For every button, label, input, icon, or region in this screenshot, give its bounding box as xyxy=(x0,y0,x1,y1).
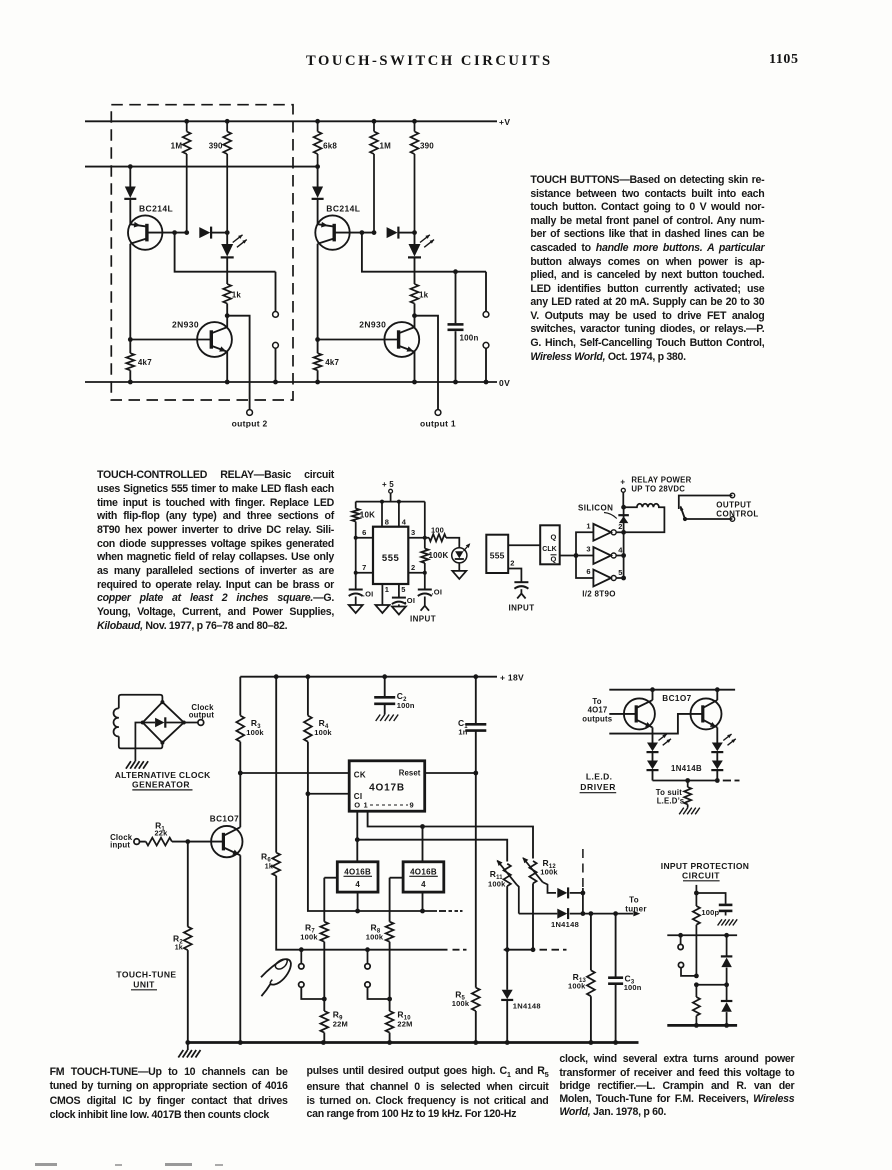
terminal clock input xyxy=(134,839,140,845)
ground (triangle) LED xyxy=(452,571,466,579)
node rail2/section1 tap xyxy=(128,164,133,169)
LED chain 2 xyxy=(712,743,723,752)
svg-text:output: output xyxy=(189,711,215,720)
node 1M/base xyxy=(184,230,189,235)
terminal plate lower xyxy=(678,962,683,967)
node emitter/0V xyxy=(225,380,230,385)
svg-text:2N930: 2N930 xyxy=(172,320,199,330)
node CI junction xyxy=(306,791,311,796)
flip-flop CLK box U3 xyxy=(540,525,560,564)
wire LED return dashes xyxy=(723,780,731,782)
switch output control xyxy=(679,496,733,510)
svg-text:ALTERNATIVE CLOCK: ALTERNATIVE CLOCK xyxy=(115,770,211,780)
wire Reset line xyxy=(425,772,476,774)
wire +V rail xyxy=(85,120,497,122)
node 4k7/0V xyxy=(128,380,133,385)
resistor R1 22k xyxy=(140,841,146,843)
arrow to tuner xyxy=(633,911,640,917)
LED indicator xyxy=(226,233,228,244)
touch contact upper xyxy=(485,272,487,312)
ground (hatch) C2 xyxy=(376,715,381,722)
finger sketch xyxy=(261,959,291,985)
svg-text:To: To xyxy=(629,895,639,904)
svg-text:1M: 1M xyxy=(380,142,392,151)
diode 1N4148 (tuner line) xyxy=(557,909,567,919)
node diode/coil xyxy=(621,505,626,510)
wire CK line xyxy=(240,772,349,774)
inductor pickup coil xyxy=(114,708,119,736)
node pin8 feed xyxy=(380,500,384,504)
capacitor 100n (sec 1) xyxy=(453,269,458,274)
inverter U3c (pins 6-5) xyxy=(593,570,611,587)
svg-text:GENERATOR: GENERATOR xyxy=(132,779,190,789)
ground (hatch) 100p xyxy=(718,919,722,925)
svg-text:100k: 100k xyxy=(300,933,318,942)
inverter U3b (pins 3-4) xyxy=(593,547,611,564)
node 1M/base xyxy=(372,230,377,235)
wire pin 8 xyxy=(381,502,383,527)
svg-text:O: O xyxy=(354,801,360,810)
svg-text:4: 4 xyxy=(402,518,407,527)
wire pin 6 xyxy=(356,537,373,539)
node C1 top xyxy=(473,674,478,679)
resistor 1M (sec 1) xyxy=(372,119,377,124)
wire touch bus rail2 xyxy=(85,166,318,168)
svg-text:4O17B: 4O17B xyxy=(369,782,405,793)
svg-text:+ 5: + 5 xyxy=(382,480,394,489)
svg-text:.OI: .OI xyxy=(363,589,374,598)
wire relay return / out2 line xyxy=(624,531,665,533)
svg-text:+V: +V xyxy=(499,117,510,127)
svg-text:4: 4 xyxy=(355,880,360,889)
svg-text:CK: CK xyxy=(354,770,366,779)
node collector/output xyxy=(225,313,230,318)
node diode out xyxy=(581,891,586,896)
transistor BC107 Q5 xyxy=(211,826,242,857)
svg-text:1: 1 xyxy=(385,585,389,594)
svg-text:9: 9 xyxy=(410,801,414,810)
svg-text:390: 390 xyxy=(420,142,434,151)
svg-text:100K: 100K xyxy=(429,551,449,560)
node touch feed 2 xyxy=(365,947,370,952)
transistor Q3 xyxy=(624,698,655,729)
svg-text:100k: 100k xyxy=(246,728,264,737)
ground (hatch) LED driver xyxy=(679,808,684,815)
svg-text:4: 4 xyxy=(421,880,426,889)
svg-text:22M: 22M xyxy=(333,1020,348,1029)
ground (hatch) clock gen xyxy=(126,761,131,769)
running head xyxy=(306,53,553,70)
touch contact lower xyxy=(483,342,489,348)
analog switch 4016B U6 xyxy=(403,862,444,892)
bridge rectifier diamond xyxy=(143,702,184,743)
svg-text:3: 3 xyxy=(586,545,590,554)
resistor R2 1k xyxy=(187,842,189,927)
terminal output 1 xyxy=(435,410,441,416)
resistor 100K xyxy=(424,502,426,549)
node 4k7/0V xyxy=(315,380,320,385)
svg-text:1k: 1k xyxy=(232,291,242,300)
wire pin 5 xyxy=(398,584,400,597)
node out4 xyxy=(621,553,626,558)
node pin4 feed xyxy=(397,500,401,504)
diode cancel (vertical) xyxy=(125,187,136,199)
diode 1N4148 (R12 leg) xyxy=(557,888,567,898)
svg-text:1k: 1k xyxy=(175,944,183,951)
svg-text:CLK: CLK xyxy=(542,546,556,553)
capacitor input (U2) xyxy=(514,581,528,583)
node C2 top xyxy=(382,674,387,679)
wire left column mid xyxy=(129,244,131,340)
node rail2 end xyxy=(315,164,320,169)
transistor Q4 xyxy=(691,698,722,729)
transistor BC214L xyxy=(128,215,162,249)
node base/bypass branch xyxy=(360,230,365,235)
resistor 4k7 xyxy=(129,340,131,354)
svg-text:OUTPUT: OUTPUT xyxy=(716,500,751,509)
node tuner/C3 xyxy=(613,911,618,916)
ground (triangle) pin5 xyxy=(392,607,406,615)
wire left column mid xyxy=(317,244,319,340)
capacitor .01 (input leg) xyxy=(424,573,426,589)
svg-text:6: 6 xyxy=(586,567,590,576)
touch contact pair 2 xyxy=(367,950,369,964)
svg-text:4O16B: 4O16B xyxy=(410,867,437,876)
touch contact upper xyxy=(275,272,277,312)
wire pin1 to 4016B-2 xyxy=(422,827,424,862)
svg-text:100k: 100k xyxy=(568,982,586,991)
resistor 1k xyxy=(223,284,231,304)
wire to inverter 1 xyxy=(576,532,593,555)
wire pin 1 xyxy=(381,584,383,605)
capacitor C3 100n xyxy=(615,914,617,977)
wire input stub xyxy=(695,885,697,893)
wire pin 4 xyxy=(398,502,400,527)
svg-text:1: 1 xyxy=(364,801,368,810)
touch contact pair 1 xyxy=(300,950,302,964)
terminal relay power xyxy=(621,488,625,492)
resistor series input xyxy=(695,893,697,906)
capacitor .01 (pin 5) xyxy=(392,597,406,599)
svg-text:4k7: 4k7 xyxy=(325,358,339,367)
dashed section box xyxy=(111,105,293,400)
transistor 2N930 xyxy=(197,322,232,357)
wire U6 out pin xyxy=(422,892,424,911)
wire Qbar out xyxy=(560,555,576,557)
capacitor C1 1n xyxy=(475,677,477,723)
wire pin1 xyxy=(368,811,533,858)
diode cancel (vertical) xyxy=(312,187,323,199)
node tuner/R13 xyxy=(589,911,594,916)
diode 1N4148 (channel hold) xyxy=(506,950,508,990)
svg-text:7: 7 xyxy=(362,563,366,572)
wire R4 col to row line xyxy=(308,794,437,911)
LED flash indicator xyxy=(452,548,467,563)
ground (triangle) xyxy=(349,605,363,613)
node pin3/100K xyxy=(423,536,427,540)
svg-text:1k: 1k xyxy=(419,291,429,300)
svg-text:+: + xyxy=(620,477,625,486)
node touch feed 1 xyxy=(299,947,304,952)
diode inside bridge xyxy=(143,722,155,724)
wire inverter output bus xyxy=(623,507,625,578)
svg-text:L.E.D’s: L.E.D’s xyxy=(657,796,685,805)
svg-text:INPUT: INPUT xyxy=(509,604,535,613)
svg-text:output 2: output 2 xyxy=(232,418,268,428)
resistor R8 100k xyxy=(389,878,391,922)
svg-text:100p: 100p xyxy=(701,908,719,917)
wire left col 6-7 xyxy=(355,538,357,573)
node Reset junction xyxy=(473,771,478,776)
svg-text:.OI: .OI xyxy=(405,596,416,605)
svg-text:1N414B: 1N414B xyxy=(671,764,702,773)
svg-text:1: 1 xyxy=(586,521,590,530)
svg-text:2: 2 xyxy=(411,563,415,572)
terminal plate upper xyxy=(680,935,682,944)
svg-text:1M: 1M xyxy=(171,142,183,151)
node R8/R10 junction xyxy=(387,997,392,1002)
svg-text:2: 2 xyxy=(510,559,514,568)
wire U2 out to CLK xyxy=(508,544,540,546)
node out2 xyxy=(621,530,626,535)
svg-text:input: input xyxy=(110,840,130,849)
capacitor C2 100n xyxy=(384,677,386,696)
svg-text:100n: 100n xyxy=(624,983,642,992)
svg-text:.OI: .OI xyxy=(432,587,443,596)
svg-text:22k: 22k xyxy=(154,829,168,838)
wire touch bus dashes xyxy=(453,949,460,951)
svg-text:4O17: 4O17 xyxy=(588,705,608,714)
svg-text:Q: Q xyxy=(551,555,557,564)
svg-text:output 1: output 1 xyxy=(420,418,456,428)
resistor 4k7 xyxy=(317,340,319,354)
svg-text:+ 18V: + 18V xyxy=(500,673,524,683)
relay coil xyxy=(624,504,665,532)
svg-text:INPUT: INPUT xyxy=(410,615,436,624)
wire bypass loop xyxy=(175,233,276,272)
svg-text:1n: 1n xyxy=(458,727,467,736)
wire U5 out pin xyxy=(357,892,359,911)
wire +5 rail xyxy=(356,501,425,503)
svg-text:6k8: 6k8 xyxy=(323,142,337,151)
wire clamp bottom (thick) xyxy=(667,1024,737,1027)
svg-text:L.E.D.: L.E.D. xyxy=(586,771,613,781)
node R4 top xyxy=(306,674,311,679)
svg-text:100: 100 xyxy=(431,526,444,535)
svg-text:8: 8 xyxy=(385,518,389,527)
wire clamp mid xyxy=(696,984,726,986)
node R1/R2/base xyxy=(185,839,190,844)
resistor 100 xyxy=(429,534,446,541)
resistor R10 22M xyxy=(389,999,391,1011)
wire Q4 base route xyxy=(609,714,703,734)
node contact/0V xyxy=(273,380,278,385)
wire LED driver rail xyxy=(609,689,735,691)
LED chain 1 xyxy=(647,743,658,752)
node LED top xyxy=(225,230,230,235)
svg-text:outputs: outputs xyxy=(582,714,612,723)
transistor BC214L xyxy=(315,215,349,249)
wire R12 bottom to bus xyxy=(532,883,534,949)
svg-text:0V: 0V xyxy=(499,378,510,388)
LED indicator xyxy=(414,233,416,244)
svg-text:CIRCUIT: CIRCUIT xyxy=(682,870,720,880)
svg-text:5: 5 xyxy=(401,585,405,594)
wire U6 ctrl stub xyxy=(390,877,404,879)
terminal +5 xyxy=(389,489,393,493)
wire output to LED xyxy=(446,538,459,548)
node pin0 branch xyxy=(355,837,360,842)
wire base line xyxy=(334,232,374,234)
svg-text:3: 3 xyxy=(411,528,415,537)
svg-text:1k: 1k xyxy=(265,864,273,871)
resistor 390 (sec 1) xyxy=(412,119,417,124)
resistor 1k xyxy=(411,284,419,304)
transistor 2N930 xyxy=(384,322,419,357)
node LED top xyxy=(412,230,417,235)
svg-text:INPUT PROTECTION: INPUT PROTECTION xyxy=(661,861,749,871)
svg-text:1N4148: 1N4148 xyxy=(513,1002,541,1011)
wire 0V ground rail (thick) xyxy=(187,1041,639,1044)
input probe arrow xyxy=(421,606,429,611)
svg-text:100k: 100k xyxy=(452,999,470,1008)
wire pin 7 xyxy=(356,572,373,574)
node R7/R9 junction xyxy=(322,997,327,1002)
svg-text:390: 390 xyxy=(209,142,223,151)
pot R12 100k xyxy=(529,861,536,883)
svg-text:SILICON: SILICON xyxy=(578,503,613,512)
wire +18V rail xyxy=(240,676,497,678)
svg-text:100k: 100k xyxy=(488,879,506,888)
wire output branch xyxy=(415,316,439,410)
svg-text:R6: R6 xyxy=(261,851,271,863)
wire left column upper xyxy=(129,167,131,187)
svg-text:tuner: tuner xyxy=(625,904,647,913)
svg-text:5: 5 xyxy=(618,568,622,577)
resistor 6k8 xyxy=(317,121,319,131)
ground (triangle) pin1 xyxy=(375,605,389,613)
op-amp/timer 555 U1 xyxy=(373,527,408,584)
resistor LED current set xyxy=(687,781,689,788)
wire to inverter 5 xyxy=(576,556,593,579)
wire base line xyxy=(147,232,187,234)
wire pin0 branch to R11 xyxy=(357,840,507,862)
wire base 2N930 xyxy=(318,339,399,341)
capacitor .01 (pins 6-7 leg) xyxy=(355,573,357,589)
resistor 390 (sec 2) xyxy=(225,119,230,124)
node base/bypass branch xyxy=(172,230,177,235)
next-page bleed marks xyxy=(35,1163,57,1166)
svg-text:10K: 10K xyxy=(360,511,375,520)
wire to 100p cap xyxy=(696,893,725,904)
wire left column upper xyxy=(317,167,319,187)
resistor R4 100k xyxy=(307,677,309,716)
svg-text:TOUCH-TUNE: TOUCH-TUNE xyxy=(116,969,176,979)
node base/4k7 xyxy=(128,337,133,342)
alternative clock generator loop xyxy=(119,695,163,709)
svg-text:4k7: 4k7 xyxy=(138,358,152,367)
wire LED return xyxy=(653,780,718,782)
wire to-tuner line xyxy=(519,913,558,915)
resistor R13 100k xyxy=(590,914,592,971)
svg-text:BC1O7: BC1O7 xyxy=(662,694,691,703)
svg-text:CONTROL: CONTROL xyxy=(716,509,758,518)
node feed col xyxy=(274,674,279,679)
touch contact lower xyxy=(273,342,279,348)
wire row 911 dashes xyxy=(439,910,446,912)
svg-text:Q: Q xyxy=(550,533,556,542)
node R11/bus xyxy=(505,947,510,952)
node tuner/expansion xyxy=(581,911,586,916)
wire base 2N930 xyxy=(130,339,211,341)
svg-text:100n: 100n xyxy=(397,701,415,710)
counter 4017B U4 xyxy=(349,761,425,811)
svg-text:I/2 8T9O: I/2 8T9O xyxy=(582,589,616,598)
node CK junction xyxy=(238,771,243,776)
capacitor 100p xyxy=(719,904,733,907)
node R12/bus xyxy=(531,947,536,952)
node pin2/input xyxy=(423,571,427,575)
page number 1105 xyxy=(769,52,799,68)
svg-text:BC214L: BC214L xyxy=(139,203,173,213)
inverter U3a (pins 1-2) xyxy=(593,524,611,541)
diode silicon (spike suppress) xyxy=(618,514,629,516)
node out5 xyxy=(621,576,626,581)
resistor 1M (sec 2) xyxy=(184,119,189,124)
node contact/0V xyxy=(484,380,489,385)
terminal output 2 xyxy=(247,410,253,416)
wire feed column (+18 to touch bus) xyxy=(275,677,277,853)
svg-text:2N930: 2N930 xyxy=(359,320,386,330)
svg-text:4: 4 xyxy=(618,545,623,554)
svg-text:4O16B: 4O16B xyxy=(344,867,371,876)
wire clock output xyxy=(184,722,198,724)
resistor 10K xyxy=(355,502,357,509)
wire to inverter 3 xyxy=(576,555,593,557)
svg-text:555: 555 xyxy=(382,553,400,564)
terminal clock output xyxy=(198,720,204,726)
wire CI line xyxy=(308,793,349,795)
wire C1 col down to R5 xyxy=(475,773,477,988)
resistor R9 22M xyxy=(323,999,325,1011)
wire dashed expansion col xyxy=(582,849,584,888)
diode series (horizontal) xyxy=(387,227,398,238)
resistor R5 100k xyxy=(472,988,480,1011)
resistor R6 1k xyxy=(272,853,280,876)
node pin1 branch xyxy=(420,824,425,829)
svg-text:BC1O7: BC1O7 xyxy=(210,814,239,823)
svg-text:100k: 100k xyxy=(540,867,558,876)
node emitter/0V xyxy=(412,380,417,385)
resistor R7 100k xyxy=(323,878,325,922)
svg-text:22M: 22M xyxy=(397,1020,412,1029)
ground (hatch) main xyxy=(187,1043,189,1051)
wire pin 2 xyxy=(408,572,425,574)
svg-text:100n: 100n xyxy=(460,334,479,343)
svg-text:Reset: Reset xyxy=(399,768,421,777)
svg-text:BC214L: BC214L xyxy=(326,203,360,213)
wire output branch xyxy=(227,316,249,410)
svg-text:555: 555 xyxy=(490,551,505,561)
svg-text:UNIT: UNIT xyxy=(133,979,155,989)
node collector/output xyxy=(412,313,417,318)
input probe arrow (U2) xyxy=(517,594,525,599)
svg-text:DRIVER: DRIVER xyxy=(580,782,616,792)
node base/4k7 xyxy=(315,337,320,342)
wire pin 3 output xyxy=(408,537,429,539)
analog switch 4016B U5 xyxy=(337,862,378,892)
wire clamp bus upper xyxy=(667,934,737,936)
